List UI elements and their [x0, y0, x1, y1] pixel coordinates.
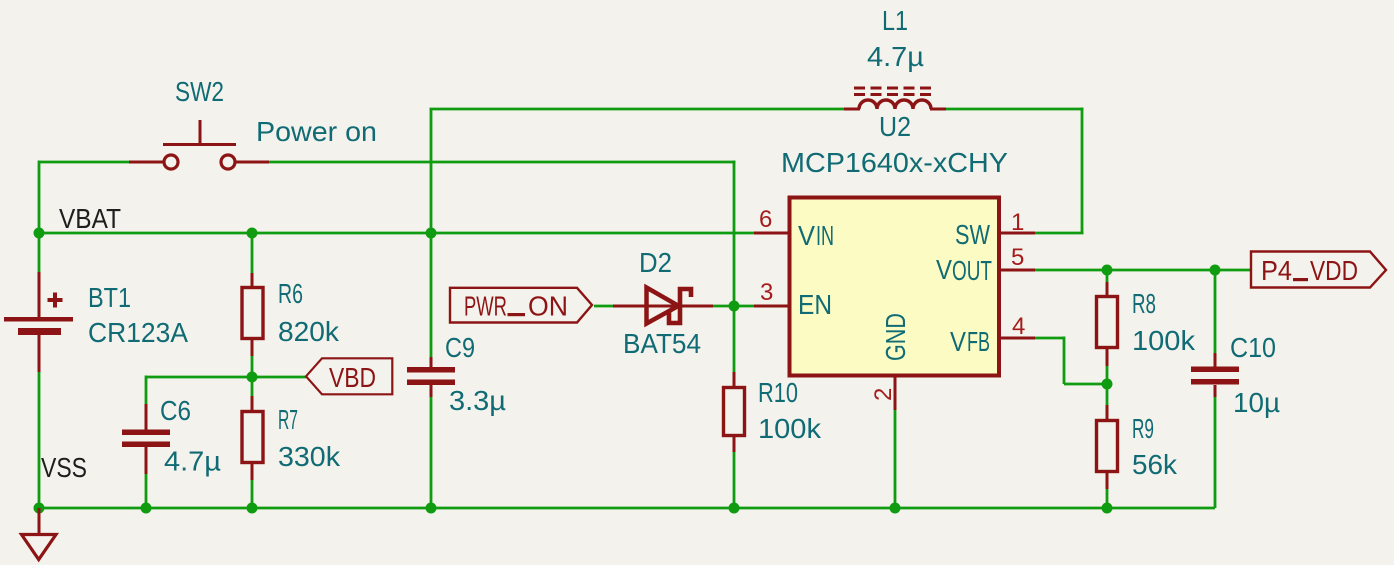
R9 value 56k	[1132, 449, 1177, 480]
svg-text:3.3µ: 3.3µ	[449, 385, 506, 416]
svg-text:C6: C6	[160, 395, 191, 426]
svg-text:R10: R10	[758, 377, 798, 408]
U2 pin SW name	[955, 219, 990, 250]
U2 reference text	[879, 111, 911, 142]
wire R9 top	[1106, 384, 1109, 405]
resistor R6	[242, 273, 263, 356]
wire C10 bottom	[1214, 397, 1217, 508]
svg-text:V: V	[936, 254, 953, 285]
global label P4_VDD	[1251, 252, 1386, 288]
switch SW2	[129, 120, 269, 169]
wire diode to EN	[713, 305, 754, 308]
svg-text:R9: R9	[1132, 413, 1154, 444]
junction VBAT at C9	[426, 228, 437, 239]
svg-text:4.7µ: 4.7µ	[867, 41, 924, 72]
capacitor C9	[407, 357, 455, 397]
wire R8 bottom	[1106, 366, 1109, 384]
svg-text:R8: R8	[1132, 288, 1156, 319]
wire C6 top	[145, 376, 148, 405]
battery BT1	[4, 272, 73, 372]
svg-text:U2: U2	[879, 111, 911, 142]
svg-text:2: 2	[870, 388, 897, 401]
wire VFB vertical	[1063, 337, 1066, 385]
svg-text:GND: GND	[880, 313, 911, 361]
svg-text:VSS: VSS	[41, 452, 87, 483]
svg-text:4.7µ: 4.7µ	[164, 446, 221, 477]
resistor R9	[1097, 405, 1118, 489]
BT1 reference text	[88, 282, 131, 313]
C9 reference text	[445, 332, 475, 363]
resistor R7	[242, 396, 263, 480]
inductor L1	[844, 88, 946, 109]
junction VSS at C9	[426, 503, 437, 514]
D2 value BAT54	[623, 328, 701, 359]
wire R6 top	[251, 233, 254, 273]
U2 value MCP1640x-xCHY	[781, 147, 1008, 178]
U2 pin EN name	[798, 289, 832, 320]
svg-text:VBD: VBD	[329, 362, 376, 393]
junction VBAT at R6	[247, 228, 258, 239]
R9 reference text	[1132, 413, 1154, 444]
svg-text:BT1: BT1	[88, 282, 131, 313]
svg-text:4: 4	[1012, 313, 1025, 340]
U2 pin 6 number	[759, 206, 772, 233]
resistor R10	[724, 372, 745, 452]
U2 pin 4 VFB stub	[1000, 337, 1035, 340]
wire GND pin to rail	[894, 410, 897, 508]
capacitor C10	[1191, 353, 1239, 397]
svg-text:EN: EN	[798, 289, 832, 320]
junction VOUT at R8	[1102, 265, 1113, 276]
svg-text:56k: 56k	[1132, 449, 1177, 480]
wire R6 bottom	[251, 355, 254, 377]
U2 pin 4 number	[1012, 313, 1025, 340]
C6 value 4.7u	[164, 446, 221, 477]
svg-text:SW: SW	[955, 219, 990, 250]
junction VSS at R7	[247, 503, 258, 514]
R6 reference text	[278, 278, 303, 309]
svg-text:100k: 100k	[758, 413, 821, 444]
junction VOUT at C10	[1210, 265, 1221, 276]
wire top loop left horizontal	[430, 108, 845, 111]
svg-text:L1: L1	[882, 5, 908, 36]
ground	[22, 508, 57, 560]
global label PWR_ON	[450, 288, 592, 323]
net label VSS	[41, 452, 87, 483]
U2 pin 2 number	[870, 388, 897, 401]
svg-text:R6: R6	[278, 278, 303, 309]
svg-text:FB: FB	[967, 326, 990, 357]
wire VBD link	[146, 376, 306, 379]
C6 reference text	[160, 395, 191, 426]
svg-text:330k: 330k	[278, 441, 340, 472]
wire PWR_ON to diode	[594, 305, 613, 308]
wire battery bottom to VSS rail	[38, 372, 41, 508]
svg-text:PWR: PWR	[464, 291, 507, 322]
capacitor C6	[122, 404, 170, 474]
junction EN node	[729, 301, 740, 312]
SW2 reference text	[175, 76, 224, 107]
U2 pin VIN name	[798, 220, 834, 251]
wire R7 bottom	[251, 479, 254, 508]
L1 value 4.7u	[867, 41, 924, 72]
R10 value 100k	[758, 413, 821, 444]
diode D2	[613, 288, 713, 324]
resistor R8	[1097, 282, 1118, 366]
wire R8 top	[1106, 270, 1109, 282]
svg-text:VDD: VDD	[1310, 255, 1358, 286]
svg-text:V: V	[798, 220, 816, 251]
svg-text:820k: 820k	[278, 316, 339, 347]
svg-text:VBAT: VBAT	[59, 203, 121, 234]
U2 pin 3 number	[760, 279, 773, 306]
junction VSS at GND pin	[890, 503, 901, 514]
wire switch left	[39, 161, 132, 164]
U2 pin 2 GND stub	[894, 377, 897, 410]
svg-text:3: 3	[760, 279, 773, 306]
wire VFB to divider	[1064, 383, 1107, 386]
wire R7 top	[251, 377, 254, 396]
net label VBAT	[59, 203, 121, 234]
svg-text:IN: IN	[816, 220, 834, 251]
wire VOUT row	[1035, 269, 1251, 272]
SW2 value Power on	[256, 116, 377, 147]
U2 pin 5 VOUT stub	[1000, 269, 1035, 272]
svg-text:SW2: SW2	[175, 76, 224, 107]
wire VBAT rail	[39, 232, 754, 235]
C9 value 3.3u	[449, 385, 506, 416]
wire R10 top	[733, 306, 736, 372]
junction VBD node	[247, 372, 258, 383]
junction VBAT at battery	[34, 228, 45, 239]
U2 pin 1 SW stub	[1000, 232, 1035, 235]
R8 reference text	[1132, 288, 1156, 319]
svg-text:10µ: 10µ	[1233, 387, 1280, 418]
U2 pin 5 number	[1011, 244, 1024, 271]
junction VSS at battery	[34, 503, 45, 514]
wire VFB horizontal from pin	[1035, 337, 1064, 340]
wire R10 bottom	[733, 451, 736, 508]
svg-text:P4: P4	[1261, 255, 1292, 286]
junction VFB at R9	[1102, 379, 1113, 390]
svg-text:1: 1	[1011, 209, 1024, 236]
svg-text:BAT54: BAT54	[623, 328, 701, 359]
C10 reference text	[1230, 332, 1276, 363]
wire C9 bottom	[430, 397, 433, 508]
L1 reference text	[882, 5, 908, 36]
R6 value 820k	[278, 316, 339, 347]
svg-text:C9: C9	[445, 332, 475, 363]
R7 value 330k	[278, 441, 340, 472]
U2 pin VOUT name	[936, 254, 992, 286]
junction VSS at C6	[141, 503, 152, 514]
svg-text:C10: C10	[1230, 332, 1276, 363]
wire top loop right horizontal	[946, 108, 1084, 111]
wire SW pin to vertical	[1035, 232, 1084, 235]
BT1 value CR123A	[88, 317, 189, 348]
wire EN vertical drop	[733, 161, 736, 307]
U2 pin VFB name	[950, 326, 990, 357]
R10 reference text	[758, 377, 798, 408]
wire C10 top	[1214, 270, 1217, 353]
svg-text:6: 6	[759, 206, 772, 233]
U2 pin 3 EN stub	[754, 305, 788, 308]
svg-text:CR123A: CR123A	[88, 317, 189, 348]
wire switch right to EN drop	[269, 161, 736, 164]
U2 pin 1 number	[1011, 209, 1024, 236]
D2 reference text	[639, 247, 672, 278]
R8 value 100k	[1132, 325, 1195, 356]
junction VSS at R10	[729, 503, 740, 514]
op-amp U2 body MCP1640	[790, 198, 1000, 376]
R7 reference text	[278, 404, 298, 435]
wire SW vertical drop	[1081, 108, 1084, 234]
U2 pin 6 VIN stub	[754, 232, 788, 235]
wire bottom VSS rail	[39, 507, 1215, 510]
svg-text:5: 5	[1011, 244, 1024, 271]
svg-text:D2: D2	[639, 247, 672, 278]
wire battery top	[38, 161, 41, 273]
svg-text:ON: ON	[528, 291, 568, 322]
wire C6 bottom	[145, 473, 148, 508]
junction VSS at R9	[1102, 503, 1113, 514]
wire C9 top	[430, 109, 433, 357]
svg-text:MCP1640x-xCHY: MCP1640x-xCHY	[781, 147, 1008, 178]
wire R9 bottom	[1106, 489, 1109, 508]
svg-text:V: V	[950, 326, 967, 357]
svg-text:R7: R7	[278, 404, 298, 435]
global label VBD	[306, 358, 392, 394]
svg-text:100k: 100k	[1132, 325, 1195, 356]
U2 pin GND name	[880, 313, 911, 361]
svg-text:Power on: Power on	[256, 116, 377, 147]
svg-text:OUT: OUT	[952, 255, 992, 286]
C10 value 10u	[1233, 387, 1280, 418]
